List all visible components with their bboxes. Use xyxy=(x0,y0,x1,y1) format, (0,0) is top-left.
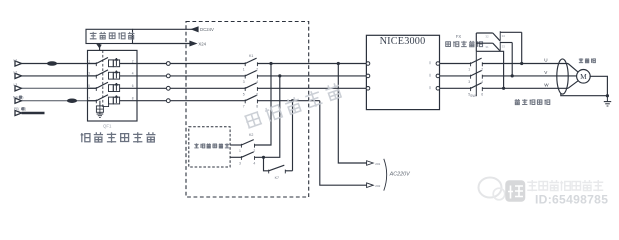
svg-text:): ) xyxy=(22,96,23,100)
NICE3000 input terminal at y=75.9 xyxy=(366,74,370,78)
breaker QF1 pole 7-8 xyxy=(88,95,138,104)
contactor K1 contact 7-8 xyxy=(243,95,258,108)
svg-text:AC220V: AC220V xyxy=(389,172,411,178)
breaker mechanical linkage (dashed) xyxy=(102,50,104,107)
wire N segment xyxy=(257,100,319,102)
svg-text:1: 1 xyxy=(88,59,90,63)
wire K2-3 to junction and up to L2 xyxy=(255,74,282,159)
svg-text:DC24V: DC24V xyxy=(200,27,214,32)
arrow X24 (pointing right) xyxy=(190,41,207,46)
run contactor SW contact 3-4 xyxy=(468,71,483,85)
svg-text:K2: K2 xyxy=(249,133,253,137)
svg-text:QF1: QF1 xyxy=(103,123,112,128)
contact K7 xyxy=(269,165,293,180)
svg-text:201: 201 xyxy=(375,162,380,166)
svg-text:7: 7 xyxy=(88,97,90,101)
tap on L1 down to AC220V xyxy=(337,62,367,163)
contactor K1 contact 5-6 xyxy=(243,83,258,96)
cable splice on N wire xyxy=(67,98,77,103)
wire V to motor xyxy=(482,75,576,77)
wire to DC24V xyxy=(133,28,198,30)
motor output lead xyxy=(590,76,608,95)
wire segment with connector circle (line 1) xyxy=(137,62,245,66)
wire W to motor xyxy=(482,87,568,89)
motor lead U slant xyxy=(568,64,578,72)
svg-text:6: 6 xyxy=(481,93,483,97)
svg-text:5: 5 xyxy=(243,92,245,96)
motor frame bottom wire xyxy=(561,93,609,97)
svg-text:6: 6 xyxy=(132,84,134,88)
machine-room distribution box outline xyxy=(88,50,138,121)
label NICE3000 xyxy=(380,36,426,47)
label FX xyxy=(456,34,462,39)
input terminal L3 with arrow xyxy=(14,83,22,91)
wire L1 from input to breaker QF1 xyxy=(22,63,97,65)
wire L1 to NICE3000 xyxy=(257,63,366,65)
wire L3 from input to breaker QF1 xyxy=(22,87,97,89)
wire U to motor xyxy=(482,63,568,65)
svg-text:7: 7 xyxy=(243,105,245,109)
svg-text:SW: SW xyxy=(470,94,476,98)
svg-text:3: 3 xyxy=(243,80,245,84)
svg-text:5: 5 xyxy=(88,84,90,88)
svg-text:3: 3 xyxy=(468,80,470,84)
arrow AC220V line 2 xyxy=(367,183,381,188)
ground symbol at motor xyxy=(604,96,611,106)
label K1 xyxy=(249,54,253,58)
label 运行接触器 xyxy=(515,99,550,105)
NICE3000 input terminal at y=63.5 xyxy=(366,62,370,66)
wire L2 from input to breaker QF1 xyxy=(22,75,97,77)
wire V from NICE3000 xyxy=(440,75,471,77)
FX contact bottom (31-33) xyxy=(476,41,512,51)
svg-text:NICE3000: NICE3000 xyxy=(380,36,426,47)
watermark ID:65498785 xyxy=(535,193,608,207)
emergency control device box 应急控制装置 xyxy=(189,127,230,167)
svg-text:1: 1 xyxy=(468,68,470,72)
svg-text:L2: L2 xyxy=(14,71,18,75)
svg-text:M: M xyxy=(580,72,587,81)
arrow AC220V line 1 xyxy=(367,161,381,166)
wire L2 to NICE3000 xyxy=(257,75,366,77)
wire K7 up to N line xyxy=(291,99,294,171)
motor circle M xyxy=(577,70,591,84)
svg-text:31: 31 xyxy=(485,45,489,49)
svg-text:W: W xyxy=(544,82,549,87)
svg-text:8: 8 xyxy=(256,105,258,109)
brace for AC220V xyxy=(384,159,387,191)
input terminal N with arrow xyxy=(13,96,23,104)
svg-text:ID:65498785: ID:65498785 xyxy=(535,193,608,207)
svg-text:): ) xyxy=(25,107,26,111)
svg-text:34: 34 xyxy=(502,34,506,38)
input terminal PE with arrow xyxy=(14,107,26,115)
contactor K1 contact 3-4 xyxy=(243,71,258,84)
wire segment with connector circle (line 2) xyxy=(137,74,245,78)
svg-text:U: U xyxy=(544,58,547,63)
label QF1 xyxy=(103,123,112,128)
watermark text row xyxy=(527,180,603,191)
label 有机房配电箱 xyxy=(81,132,156,142)
contact K2 3-4 xyxy=(230,152,255,165)
watermark diagonal 电梯阁论坛 xyxy=(244,82,343,130)
FX bottom contact drop to V xyxy=(511,43,514,78)
cable splice on L1 wire xyxy=(47,61,57,66)
svg-text:4: 4 xyxy=(132,72,134,76)
svg-text:K1: K1 xyxy=(249,54,253,58)
svg-text:3: 3 xyxy=(239,161,241,165)
svg-text:V: V xyxy=(544,70,548,75)
wire N down to AC220V xyxy=(320,101,367,186)
wire L3 to NICE3000 xyxy=(257,87,366,89)
run contactor SW linkage line xyxy=(475,51,477,96)
svg-text:L1: L1 xyxy=(14,58,18,62)
ground symbol in distribution box xyxy=(97,112,104,117)
wire U from NICE3000 xyxy=(440,63,471,65)
breaker QF1 pole 3-4 xyxy=(88,70,138,79)
wire to X24 xyxy=(133,43,191,45)
svg-text:PE(: PE( xyxy=(14,107,20,111)
wire segment with connector circle (line 4) xyxy=(137,99,245,103)
watermark circles logo xyxy=(479,178,505,200)
svg-text:1: 1 xyxy=(239,149,241,153)
arrow DC24V (pointing left) xyxy=(192,27,214,32)
run contactor SW contact 5-6 xyxy=(468,83,483,97)
contactor K1 contact 1-2 xyxy=(243,58,258,71)
NICE3000 output terminal at y=88.3 xyxy=(430,86,440,90)
input terminal L2 with arrow xyxy=(14,71,22,79)
wire K2-1 up to L1 xyxy=(255,62,273,145)
traction machine ellipse xyxy=(557,59,568,94)
watermark square logo xyxy=(506,181,526,202)
detection tap wire down to breaker xyxy=(97,44,102,51)
svg-text:L3: L3 xyxy=(14,83,18,87)
FX rail bottom edge drop to W xyxy=(476,51,505,90)
label 曳引机 xyxy=(579,58,596,63)
breaker QF1 pole 5-6 xyxy=(88,82,138,91)
svg-text:4: 4 xyxy=(253,161,255,165)
svg-text:32: 32 xyxy=(485,35,489,39)
svg-text:33: 33 xyxy=(502,44,506,48)
svg-text:1: 1 xyxy=(243,68,245,72)
label SW xyxy=(470,94,476,98)
svg-text:2: 2 xyxy=(132,59,134,63)
svg-text:X24: X24 xyxy=(198,41,206,46)
main breaker detection box 主空开检测 xyxy=(86,29,135,43)
input terminal L1 with arrow xyxy=(14,58,22,66)
svg-text:K7: K7 xyxy=(275,176,279,180)
label V xyxy=(544,70,548,75)
FX contact top (31-34) xyxy=(476,31,521,41)
wire segment with connector circle (line 3) xyxy=(137,86,245,90)
NICE3000 output terminal at y=63.5 xyxy=(430,61,440,65)
FX common rail xyxy=(475,33,477,51)
control cabinet dashed enclosure xyxy=(186,22,309,198)
motor lead W slant xyxy=(568,81,578,88)
label W xyxy=(544,82,549,87)
PE terminal block in distribution box xyxy=(96,101,108,113)
svg-text:8: 8 xyxy=(132,97,134,101)
wire PE (thick) xyxy=(22,112,45,115)
controller NICE3000 box xyxy=(366,35,439,109)
wire junction down to K7 xyxy=(264,157,269,171)
label U xyxy=(544,58,547,63)
svg-text:FX: FX xyxy=(456,34,462,39)
run contactor SW contact 1-2 xyxy=(468,58,483,72)
wire W from NICE3000 xyxy=(440,87,471,89)
contact K2 1-2 xyxy=(230,140,255,153)
wire N from input to breaker QF1 xyxy=(22,100,97,102)
label AC220V xyxy=(389,172,411,178)
label K2 xyxy=(249,133,253,137)
FX top contact drop to U xyxy=(520,32,523,65)
svg-text:202: 202 xyxy=(375,184,380,188)
breaker QF1 pole 1-2 xyxy=(88,58,138,67)
NICE3000 input terminal at y=88.3 xyxy=(366,87,370,91)
svg-text:3: 3 xyxy=(88,72,90,76)
label 封星接触器 xyxy=(445,41,482,47)
NICE3000 output terminal at y=75.9 xyxy=(430,74,440,78)
